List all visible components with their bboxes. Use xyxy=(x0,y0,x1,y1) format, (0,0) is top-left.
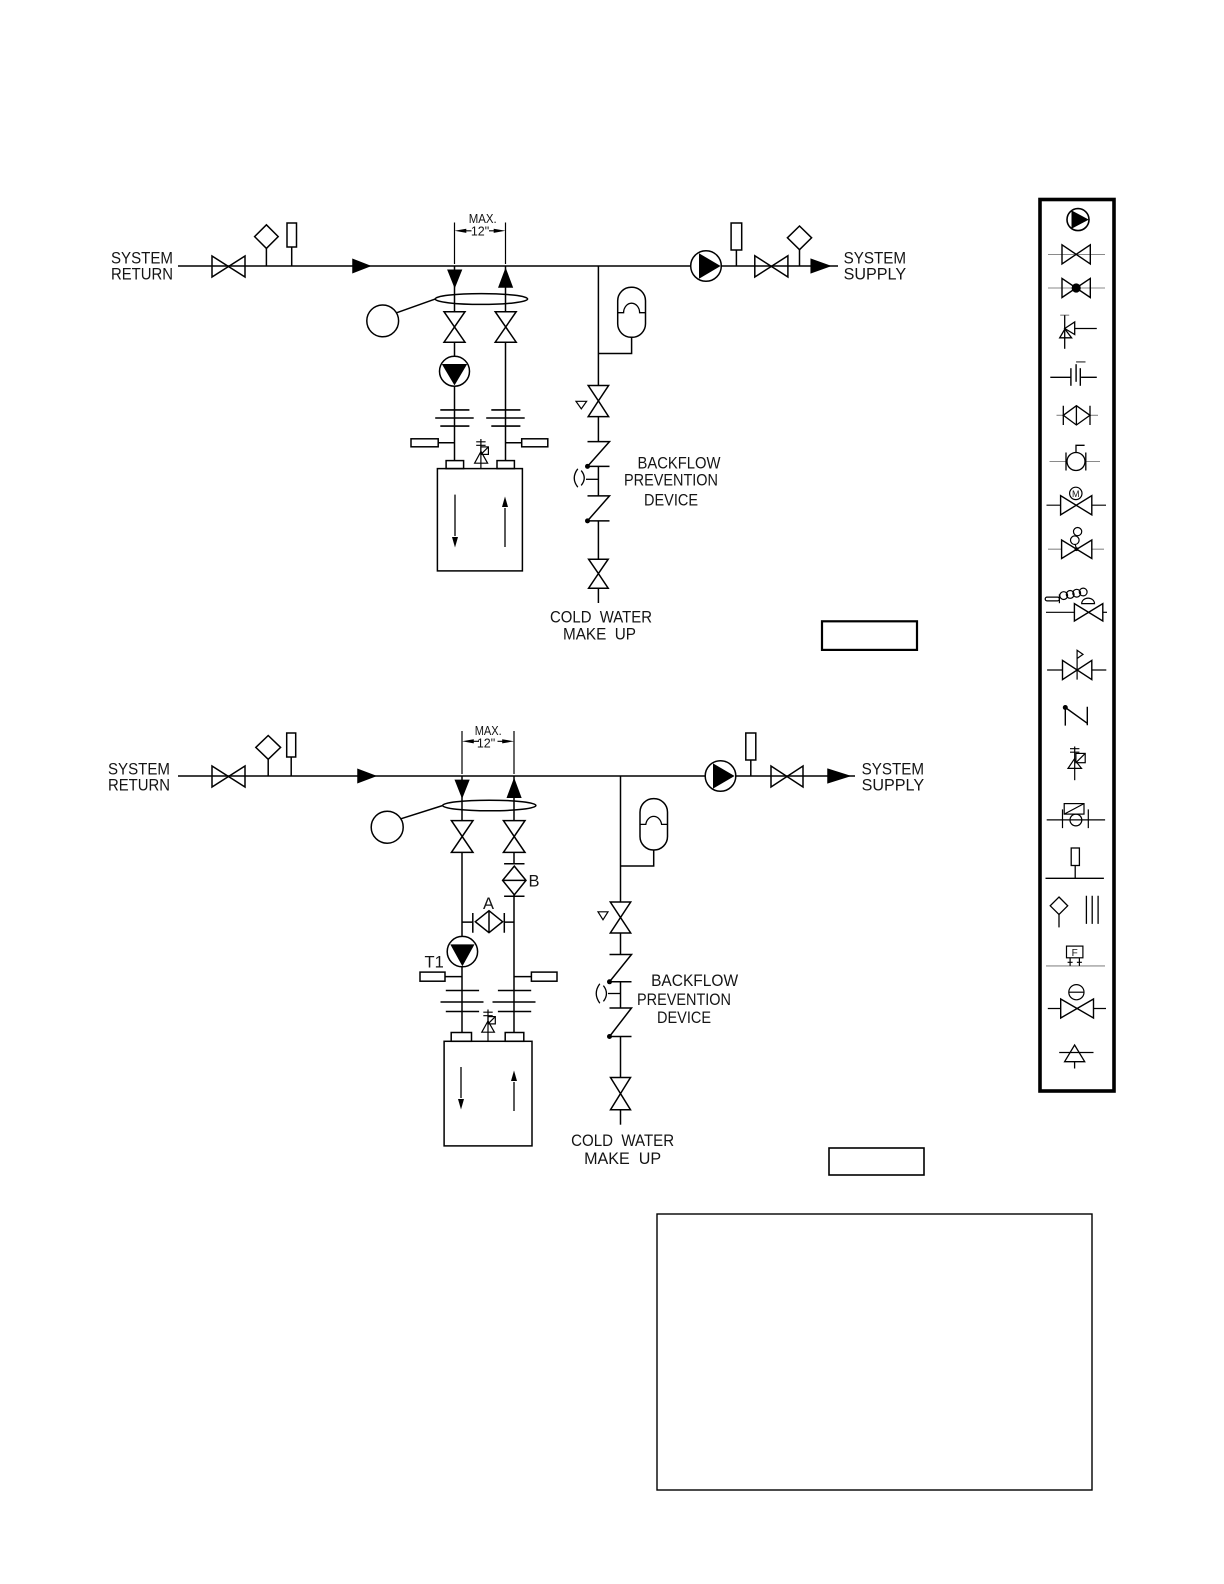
wire: capillary from bulb to ellipse xyxy=(397,299,436,313)
check valve 2 Z-symbol (bottom) xyxy=(610,1008,632,1037)
wire: right pipe to check B (bottom) xyxy=(513,852,515,863)
wire: capillary from bulb to ellipse (bottom) xyxy=(401,805,443,818)
legend gauge with cock symbol xyxy=(1050,897,1068,915)
pump on left drop (top) xyxy=(440,356,470,386)
isolation valve right drop (top) xyxy=(495,312,516,343)
test port parentheses (top) xyxy=(574,469,584,487)
wire: cold water inlet stub (bottom) xyxy=(620,1110,622,1125)
gauge diamond on supply (top) xyxy=(787,226,811,250)
wire: cold water branch drop (bottom) xyxy=(620,776,622,902)
pump on left drop (bottom) xyxy=(447,936,477,966)
wire: left drop pipe (bottom) xyxy=(461,776,463,821)
svg-text:RETURN: RETURN xyxy=(108,776,170,795)
wire: right pipe below B (bottom) xyxy=(513,895,515,1033)
flow arrow on supply (top) xyxy=(811,259,829,272)
wire: bypass line (bottom) xyxy=(462,921,514,923)
check valve B bottom bar xyxy=(504,895,524,897)
gate valve on return (top) xyxy=(212,256,245,277)
PRV flag triangle (top) xyxy=(576,401,587,409)
check valve 2 Z-symbol (top) xyxy=(588,496,610,521)
legend thermometer symbol xyxy=(1046,877,1104,879)
check valve 1 Z-symbol (top) xyxy=(588,442,610,467)
wire: main return/supply line (top) xyxy=(178,265,838,267)
shutoff valve cold water (bottom) xyxy=(611,1078,631,1110)
wire: PRV to check 1 (bottom) xyxy=(620,933,622,955)
gauge diamond on return (bottom) xyxy=(256,736,281,760)
wire: thermometer stem xyxy=(291,247,293,266)
legend flow switch symbol xyxy=(1046,965,1105,967)
large notes box xyxy=(657,1214,1092,1490)
legend air vent symbol xyxy=(1065,1045,1085,1062)
wire: left pipe below pump (bottom) xyxy=(461,967,463,1033)
tap rectangle right (bottom) xyxy=(531,972,557,981)
flow arrow up on right drop (top) xyxy=(499,270,512,287)
expansion tank (bottom) xyxy=(640,799,668,850)
svg-text:T1: T1 xyxy=(425,953,444,971)
boiler (top) xyxy=(437,469,522,571)
wire: right tap stub (bottom) xyxy=(514,976,531,978)
boiler stub left (bottom) xyxy=(451,1033,471,1042)
wire: right drop pipe (bottom) xyxy=(513,776,515,821)
boiler stub right (bottom) xyxy=(505,1033,524,1042)
relief valve on boiler (bottom) xyxy=(482,1010,496,1042)
gate valve on supply (bottom) xyxy=(771,766,803,787)
flow arrow on supply (bottom) xyxy=(828,769,849,782)
boiler internal down arrow (top) xyxy=(454,495,456,536)
wire: tank stem elbow xyxy=(598,337,631,353)
legend gate valve symbol xyxy=(1048,254,1105,256)
svg-text:COLD WATER: COLD WATER xyxy=(571,1131,674,1150)
wire: check 2 to shutoff valve xyxy=(597,521,599,559)
test port parentheses (bottom) xyxy=(596,984,606,1003)
dimension extension lines MAX 12" (bottom) xyxy=(462,731,514,774)
legend check valve symbol xyxy=(1057,414,1099,416)
thermometer on return (top) xyxy=(287,223,297,247)
gate valve on return (bottom) xyxy=(212,766,245,787)
wire: gauge stem xyxy=(265,248,267,266)
pump on supply line (bottom) xyxy=(705,761,736,792)
svg-text:12": 12" xyxy=(471,224,489,238)
legend solenoid valve symbol xyxy=(1048,548,1104,550)
flow arrow on return line (top) xyxy=(353,260,370,273)
pressure reducing valve (top) xyxy=(588,386,608,417)
flow arrow up on right drop (bottom) xyxy=(508,780,521,797)
isolation valve left drop (top) xyxy=(444,312,465,343)
tap rectangle right (top) xyxy=(522,439,548,447)
test cock dot 2 (bottom) xyxy=(607,1034,612,1039)
wire: right pipe valve to boiler xyxy=(505,342,507,460)
wire: left pipe valve to pump xyxy=(454,342,456,356)
test cock dot 1 (bottom) xyxy=(607,979,612,984)
wire: thermometer stem (bottom) xyxy=(290,757,292,776)
legend balancing fitting symbol xyxy=(1047,819,1105,821)
low water cutoff ellipse (bottom) xyxy=(443,800,536,811)
legend boiler relief valve symbol xyxy=(1068,747,1085,781)
wire: between checks (bottom) xyxy=(620,982,622,1008)
wire: main return/supply line (bottom) xyxy=(178,775,855,777)
wire: right drop pipe (top) xyxy=(505,266,507,312)
legend pump symbol xyxy=(1067,209,1089,231)
legend border xyxy=(1040,200,1114,1092)
gate valve on supply (top) xyxy=(755,256,788,277)
boiler (bottom) xyxy=(444,1041,532,1146)
legend globe valve symbol xyxy=(1048,287,1105,289)
svg-text:SUPPLY: SUPPLY xyxy=(844,265,907,284)
union on left pipe (top) xyxy=(435,410,474,426)
boiler internal up arrow (top) xyxy=(504,508,506,547)
expansion tank (top) xyxy=(618,287,646,337)
dimension arrows (bottom) xyxy=(471,740,506,742)
wire: left pipe to pump (bottom) xyxy=(461,852,463,936)
thermometer on supply (top) xyxy=(731,223,742,250)
check valve A end bars xyxy=(473,913,505,933)
svg-text:BACKFLOW: BACKFLOW xyxy=(651,971,738,990)
svg-text:B: B xyxy=(529,873,540,891)
wire: T1 tap stub xyxy=(445,976,462,978)
thermometer on supply (bottom) xyxy=(746,733,756,760)
wire: left pipe pump to boiler xyxy=(454,386,456,460)
isolation valve right drop (bottom) xyxy=(503,821,525,853)
legend relief/angle valve symbol xyxy=(1060,314,1069,316)
pressure reducing valve (bottom) xyxy=(610,902,630,933)
relief valve on boiler (top) xyxy=(475,439,489,469)
gauge diamond on return (top) xyxy=(255,225,279,249)
pump on supply line (top) xyxy=(691,251,722,282)
legend balancing valve with pennant symbol xyxy=(1047,669,1106,671)
svg-text:MAKE UP: MAKE UP xyxy=(584,1149,661,1168)
wire: test port stub xyxy=(586,478,598,480)
legend plug valve symbol xyxy=(1048,1008,1106,1010)
flow arrow down on left drop (top) xyxy=(448,270,461,286)
thermometer on return (bottom) xyxy=(287,733,296,757)
wire: supply gauge stem xyxy=(799,250,801,266)
note box bottom diagram xyxy=(829,1148,924,1175)
sensor bulb circle (top) xyxy=(367,305,399,337)
check valve A diamond xyxy=(475,911,502,933)
legend flow check Z symbol xyxy=(1063,705,1068,710)
wire: PRV to check 1 xyxy=(597,417,599,442)
svg-text:12": 12" xyxy=(477,737,495,751)
check valve B top bar xyxy=(504,863,524,865)
isolation valve left drop (bottom) xyxy=(451,821,473,853)
test cock dot 1 (top) xyxy=(585,464,590,469)
legend pressure reducing valve with spring symbol xyxy=(1045,588,1094,604)
svg-text:A: A xyxy=(483,895,494,913)
svg-text:SUPPLY: SUPPLY xyxy=(862,776,925,795)
wire: test port stub (bottom) xyxy=(608,993,621,995)
boiler internal down arrow (bottom) xyxy=(460,1067,462,1098)
wire: between checks xyxy=(597,466,599,496)
tap rectangle left T1 (bottom) xyxy=(420,972,445,981)
shutoff valve cold water (top) xyxy=(589,559,609,588)
svg-text:MAKE UP: MAKE UP xyxy=(563,625,636,644)
wire: tap stub left xyxy=(438,442,454,444)
union on right pipe (top) xyxy=(486,410,525,426)
boiler stub left (top) xyxy=(446,461,464,469)
flow arrow on return line (bottom) xyxy=(358,770,375,783)
svg-text:PREVENTION: PREVENTION xyxy=(624,471,718,490)
legend union symbol xyxy=(1050,362,1097,386)
tap rectangle left (top) xyxy=(411,439,438,447)
note box top diagram xyxy=(822,621,917,650)
PRV flag triangle (bottom) xyxy=(598,912,608,920)
flow arrow down on left drop (bottom) xyxy=(456,780,469,796)
svg-text:DEVICE: DEVICE xyxy=(644,491,698,510)
check valve 1 Z-symbol (bottom) xyxy=(610,955,632,982)
union on left pipe (bottom) xyxy=(441,991,484,1012)
wire: check 2 to shutoff valve (bottom) xyxy=(620,1037,622,1078)
dimension extension lines MAX 12" (top) xyxy=(455,223,506,265)
svg-text:F: F xyxy=(1072,948,1078,959)
sensor bulb circle (bottom) xyxy=(371,811,403,843)
boiler internal up arrow (bottom) xyxy=(513,1082,515,1111)
union on right pipe (bottom) xyxy=(493,991,536,1012)
boiler stub right (top) xyxy=(497,461,514,469)
wire: gauge stem (bottom) xyxy=(267,759,269,776)
svg-text:RETURN: RETURN xyxy=(111,265,173,284)
low water cutoff ellipse (top) xyxy=(435,294,527,305)
wire: cold water branch drop (top) xyxy=(597,266,599,386)
wire: tank stem elbow (bottom) xyxy=(621,850,654,866)
legend motorized valve symbol xyxy=(1047,504,1107,506)
svg-text:DEVICE: DEVICE xyxy=(657,1008,711,1027)
wire: tap stub right xyxy=(506,442,522,444)
svg-text:M: M xyxy=(1072,489,1080,499)
check valve B diamond xyxy=(503,866,526,895)
test cock dot 2 (top) xyxy=(585,518,590,523)
wire: left drop pipe (top) xyxy=(454,266,456,312)
svg-text:PREVENTION: PREVENTION xyxy=(637,990,731,1009)
legend circuit setter symbol xyxy=(1050,461,1101,463)
dimension arrows (top) xyxy=(463,230,497,232)
wire: cold water inlet stub xyxy=(597,588,599,603)
